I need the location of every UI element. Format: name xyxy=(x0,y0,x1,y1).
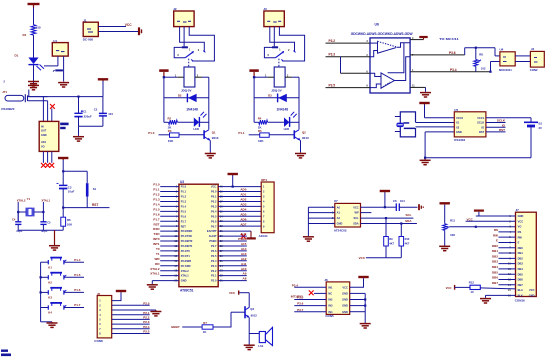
svg-text:9013: 9013 xyxy=(302,136,309,140)
svg-text:P3.2/INT0: P3.2/INT0 xyxy=(181,239,193,243)
coil pin 1 stub xyxy=(265,74,274,77)
speaker feed wire xyxy=(249,333,259,335)
svg-text:RST: RST xyxy=(181,224,187,228)
net label J6-1 xyxy=(292,284,299,288)
net label AD7 xyxy=(240,222,246,226)
svg-text:SCLK: SCLK xyxy=(477,121,484,125)
J5 pin texts xyxy=(99,300,101,336)
NC contact tick xyxy=(293,51,295,53)
svg-text:P0.5: P0.5 xyxy=(211,214,217,218)
U3 VCC pin wire xyxy=(218,186,233,188)
junction at 78.5,96.6 xyxy=(77,96,79,98)
net label PSEN xyxy=(238,237,246,241)
svg-text:VCC: VCC xyxy=(446,286,452,290)
svg-text:BLA: BLA xyxy=(518,288,523,292)
svg-text:DB1: DB1 xyxy=(492,249,498,253)
ground at op-amp pin11 xyxy=(420,92,431,97)
svg-text:U5: U5 xyxy=(454,108,458,112)
svg-text:GND: GND xyxy=(342,304,348,308)
push button K2 xyxy=(48,273,66,285)
VO wire to LCD xyxy=(449,226,515,228)
svg-text:RP1: RP1 xyxy=(261,178,267,182)
U3 P0.2 wire to RP1 xyxy=(218,200,261,202)
power bar (sideways) at J1 gnd xyxy=(139,27,142,35)
svg-text:1N4148: 1N4148 xyxy=(186,107,198,111)
svg-text:E: E xyxy=(496,239,498,243)
R6 to crystal rail xyxy=(62,226,64,230)
svg-text:Q1: Q1 xyxy=(212,131,216,135)
svg-text:JDQ-5V: JDQ-5V xyxy=(181,88,192,92)
no-connect X bottom pin c xyxy=(49,163,54,168)
svg-text:AD6: AD6 xyxy=(240,217,246,221)
ground below buttons xyxy=(47,322,58,328)
svg-text:R11: R11 xyxy=(450,219,455,223)
J3 pin3 wire to NO contact xyxy=(279,27,304,61)
cap C1 top drop xyxy=(78,97,80,113)
svg-text:A13: A13 xyxy=(241,252,247,256)
U5 SCLK wire xyxy=(486,122,506,124)
junction at 40.6,277.3 xyxy=(40,276,42,278)
svg-text:P1.7: P1.7 xyxy=(153,217,160,221)
R10 bottom xyxy=(400,246,402,258)
J7 pin11 wire xyxy=(499,268,516,270)
J7 pin10 wire xyxy=(499,263,516,265)
junction at 40.6,292.4 xyxy=(40,291,42,293)
svg-text:P1.4: P1.4 xyxy=(74,258,81,262)
svg-text:WP: WP xyxy=(355,211,359,215)
svg-text:GND: GND xyxy=(518,214,524,218)
VCC flag stem xyxy=(102,81,104,97)
power bar at J7 pin1 xyxy=(474,210,484,212)
U3 P0.3 wire to RP1 xyxy=(218,205,261,207)
junction at 475.8,47.7 xyxy=(475,47,477,49)
svg-text:DB5: DB5 xyxy=(492,270,498,274)
svg-text:CON8: CON8 xyxy=(94,339,103,343)
svg-text:RST: RST xyxy=(92,203,98,207)
net label DB4 J7 xyxy=(492,265,498,269)
svg-text:J4: J4 xyxy=(531,47,535,51)
J7 pin14 wire xyxy=(499,284,516,286)
ground below U7 bus xyxy=(303,236,314,241)
svg-text:LED: LED xyxy=(193,127,199,131)
svg-text:C6: C6 xyxy=(393,199,397,203)
net label P1.0 xyxy=(153,183,160,187)
VCC drop to pin1 xyxy=(424,105,426,118)
svg-text:ALE: ALE xyxy=(240,232,246,236)
relay coil J3 xyxy=(271,67,285,92)
svg-text:9013: 9013 xyxy=(212,136,219,140)
svg-text:C5: C5 xyxy=(47,220,51,224)
reset button top wire xyxy=(86,171,88,183)
relay collector vertical xyxy=(208,77,210,129)
relay common route xyxy=(264,47,275,57)
svg-text:P2.1: P2.1 xyxy=(211,274,217,278)
net label J6-5 xyxy=(297,308,304,312)
svg-text:4K7: 4K7 xyxy=(405,241,410,245)
svg-text:DB7: DB7 xyxy=(492,281,498,285)
svg-text:GND: GND xyxy=(337,222,343,226)
svg-text:GND: GND xyxy=(342,310,348,314)
net label WR xyxy=(155,257,161,261)
svg-text:A2: A2 xyxy=(337,216,341,220)
VCC tag wire xyxy=(239,292,249,294)
op-amp A triangle xyxy=(378,41,398,53)
U3 right pin wire 26 xyxy=(218,255,247,257)
svg-text:AD1: AD1 xyxy=(240,193,246,197)
svg-text:A0: A0 xyxy=(337,205,341,209)
contact pin number 2 xyxy=(288,48,290,52)
svg-text:P1.5: P1.5 xyxy=(181,209,187,213)
emitter wire down xyxy=(300,141,302,153)
contact pin number 3 xyxy=(177,53,179,57)
net label P1.0 xyxy=(148,131,155,135)
relay left vertical xyxy=(163,77,165,122)
transistor Q2 xyxy=(294,130,309,141)
crystal ground rail xyxy=(18,229,63,231)
svg-text:C4: C4 xyxy=(12,218,16,222)
net label AD4 xyxy=(240,207,246,211)
U2 bottom pins xyxy=(43,151,51,162)
junction at 43.4,212 xyxy=(42,211,44,213)
coil to collector vertical xyxy=(202,76,209,78)
U3 right pin wire 30 xyxy=(218,235,247,237)
NO contact tick xyxy=(281,59,283,61)
junction at 18.2,212 xyxy=(17,211,19,213)
J6 gnd wire 2 xyxy=(350,292,366,294)
J7 pin7 wire xyxy=(499,247,516,249)
U3 pin names and numbers xyxy=(174,185,223,283)
svg-text:DB2: DB2 xyxy=(518,256,524,260)
U3 left pin 19 wire xyxy=(160,275,179,277)
contrast bottom wire xyxy=(444,230,446,245)
svg-text:P2.1: P2.1 xyxy=(143,311,150,315)
contact pin number 1 xyxy=(189,48,191,52)
svg-text:4K7: 4K7 xyxy=(389,241,394,245)
indicator LED D2a xyxy=(193,112,206,131)
K3 right wire xyxy=(64,291,84,293)
relay contact common junction xyxy=(182,46,188,48)
svg-text:30pF: 30pF xyxy=(41,229,48,233)
svg-text:A103J: A103J xyxy=(259,234,268,238)
svg-text:BLK: BLK xyxy=(518,293,523,297)
ground below U1 xyxy=(58,82,69,87)
net label AD0 xyxy=(240,188,246,192)
net label DB5 J7 xyxy=(492,270,498,274)
J2 labels xyxy=(173,7,191,22)
net label AD3 xyxy=(240,202,246,206)
relay switch arm xyxy=(275,51,284,58)
svg-text:10K: 10K xyxy=(450,233,455,237)
U3 left pin 9 wire xyxy=(160,225,179,227)
svg-text:P0.4: P0.4 xyxy=(211,209,217,213)
junction at 401.3,223.5 xyxy=(400,222,402,224)
ground at J7 pin16 xyxy=(480,298,491,303)
ground below caps xyxy=(73,136,84,141)
op-amp left pin2 wire xyxy=(326,56,371,58)
svg-text:VCC: VCC xyxy=(342,285,348,289)
svg-text:J5: J5 xyxy=(97,292,101,296)
J6 pin2 wire xyxy=(314,292,326,294)
wire ground stem to VCC rail xyxy=(28,90,30,97)
svg-text:LS1: LS1 xyxy=(258,344,264,348)
net label TXD xyxy=(154,232,161,236)
svg-text:K1: K1 xyxy=(48,265,52,269)
svg-text:INT0: INT0 xyxy=(153,237,160,241)
svg-text:J2: J2 xyxy=(173,7,177,11)
U4-J4 wire1 xyxy=(515,55,530,57)
net label INT0 xyxy=(153,237,160,241)
ground below contrast xyxy=(439,246,450,251)
svg-text:A1: A1 xyxy=(337,211,341,215)
U3 left pin 13 wire xyxy=(160,245,179,247)
svg-text:1K: 1K xyxy=(203,330,207,334)
J7 pin2 wire xyxy=(466,220,516,222)
svg-text:RST: RST xyxy=(154,222,160,226)
U3 P0.7 wire to RP1 xyxy=(218,225,261,227)
wire LED to vertical xyxy=(199,121,208,123)
U4 labels xyxy=(499,48,512,72)
indicator LED D3a xyxy=(284,112,297,131)
svg-text:P2.4: P2.4 xyxy=(211,259,217,263)
push button K1 xyxy=(48,258,66,270)
ground top (sensor rail) xyxy=(28,81,39,86)
K4 left wire xyxy=(41,307,49,309)
svg-text:P1.7: P1.7 xyxy=(74,303,81,307)
svg-text:P2.4: P2.4 xyxy=(143,325,150,329)
U3 left pin 5 wire xyxy=(160,205,179,207)
net label INT1 xyxy=(153,242,160,246)
svg-text:RW: RW xyxy=(493,233,498,237)
C4 bottom xyxy=(17,224,19,230)
no-ERC X on EA xyxy=(241,234,246,239)
svg-text:Q3: Q3 xyxy=(250,307,254,311)
svg-text:VCC: VCC xyxy=(125,23,132,27)
op-amp right pin numbers xyxy=(412,37,415,88)
svg-text:AD4: AD4 xyxy=(240,207,246,211)
U3 left pin 12 wire xyxy=(160,240,179,242)
U3 EA pin wire xyxy=(218,230,251,232)
J7 pin13 wire xyxy=(499,278,516,280)
relay terminal block J3 xyxy=(264,11,284,27)
wire U1 pin1 to LED link xyxy=(44,65,58,67)
svg-text:R4: R4 xyxy=(258,116,262,120)
op-amp ref wire xyxy=(410,71,490,73)
svg-text:A11: A11 xyxy=(241,262,247,266)
J7 pin8 wire xyxy=(499,252,516,254)
svg-text:P1.0: P1.0 xyxy=(181,185,187,189)
svg-text:9012: 9012 xyxy=(251,313,258,317)
J6 pin5 wire xyxy=(294,311,326,313)
reset button bottom wire xyxy=(86,197,88,208)
junction at 232.7,186.6 xyxy=(232,186,234,188)
svg-text:IO: IO xyxy=(481,125,484,129)
svg-text:VCC: VCC xyxy=(353,205,359,209)
J3 labels xyxy=(263,7,281,22)
SDA pullup tap xyxy=(400,224,402,237)
J5 pin4 wire xyxy=(112,314,150,316)
net label DB0 J7 xyxy=(492,244,498,248)
svg-text:J6: J6 xyxy=(324,278,328,282)
svg-text:P3.5/T1: P3.5/T1 xyxy=(181,254,191,258)
net label E J7 xyxy=(496,239,498,243)
flyback diode D2 xyxy=(178,94,198,112)
op-amp pin11 wire xyxy=(410,86,425,88)
svg-text:P1.1: P1.1 xyxy=(153,188,160,192)
U3 right pin wire 29 xyxy=(218,240,247,242)
K1 right wire xyxy=(64,261,84,263)
svg-text:R1: R1 xyxy=(23,33,27,37)
net label RXD xyxy=(153,227,160,231)
net label VCC at J7 xyxy=(467,218,474,222)
svg-text:104: 104 xyxy=(108,112,113,116)
RP1 labels xyxy=(259,178,268,238)
net label P2.4 J5 xyxy=(143,325,150,329)
J7 pin texts xyxy=(508,214,535,297)
svg-text:1N4148: 1N4148 xyxy=(277,107,289,111)
svg-text:P1.5: P1.5 xyxy=(153,207,160,211)
svg-text:VCC2: VCC2 xyxy=(456,116,463,120)
VCC1 wire to battery xyxy=(486,117,531,119)
svg-text:AD2: AD2 xyxy=(240,198,246,202)
net label A10 xyxy=(241,267,247,271)
net label SCLK xyxy=(497,119,506,123)
svg-text:VO: VO xyxy=(41,145,45,148)
svg-text:XTAL2: XTAL2 xyxy=(181,269,190,273)
J7 pin16 drop xyxy=(485,295,487,297)
net label T1 xyxy=(156,252,160,256)
op-amp B output route xyxy=(394,57,410,81)
svg-text:DS1302: DS1302 xyxy=(454,138,465,142)
Q3 base wire xyxy=(231,311,245,313)
K2 right wire xyxy=(64,276,84,278)
trimmer R11 xyxy=(443,219,456,237)
op-amp left pins vertical xyxy=(340,57,342,74)
wire VCC to R1 xyxy=(33,8,35,25)
svg-text:SDA: SDA xyxy=(353,222,359,226)
J7 pin5 wire xyxy=(499,236,516,238)
svg-text:DB0: DB0 xyxy=(518,246,524,250)
svg-text:R6: R6 xyxy=(67,218,71,222)
net label P1.4 xyxy=(153,202,160,206)
junction at 365.2,299.5 xyxy=(364,298,366,300)
no-ERC X at J6 pin2 xyxy=(309,290,314,295)
svg-text:X2: X2 xyxy=(456,125,460,129)
svg-text:MOC3041: MOC3041 xyxy=(499,68,512,72)
U3 left pin 18 wire xyxy=(160,270,179,272)
pin11 drop xyxy=(425,87,427,91)
svg-text:D3: D3 xyxy=(268,94,272,98)
svg-text:VCC: VCC xyxy=(518,219,524,223)
net label P1.7 xyxy=(153,217,160,221)
coil pin 2 stub xyxy=(285,74,292,77)
IR receiver U1 xyxy=(52,43,68,57)
battery bottom lead xyxy=(530,126,532,158)
svg-text:P3.1/TXD: P3.1/TXD xyxy=(181,234,192,238)
U7 VCC riser xyxy=(384,192,386,207)
regulator U2 xyxy=(39,121,59,151)
J7 pin1 riser xyxy=(478,212,480,216)
svg-text:P3.7/RD: P3.7/RD xyxy=(181,264,191,268)
svg-text:R2: R2 xyxy=(168,116,172,120)
wire D1 to ground xyxy=(33,65,35,84)
power flag VCC at U7 xyxy=(380,191,390,192)
net label ALE xyxy=(240,232,246,236)
relay actuation dashed link xyxy=(278,59,280,67)
sensor data wire xyxy=(28,100,48,102)
power bar at op-amp pin4 xyxy=(419,37,427,40)
svg-text:U7: U7 xyxy=(334,199,338,203)
net label A9 xyxy=(243,272,247,276)
svg-text:IN2: IN2 xyxy=(328,298,333,302)
U2 inner text xyxy=(41,123,69,149)
svg-text:P1.4: P1.4 xyxy=(153,202,160,206)
power flag VCC at J6 xyxy=(358,277,368,278)
net label RS J7 xyxy=(494,228,498,232)
wire net label to base resistor xyxy=(159,134,170,136)
wire base resistor to transistor xyxy=(269,134,294,136)
svg-text:E: E xyxy=(518,241,520,245)
ground at J5 pin3 xyxy=(150,310,161,316)
connector J4 xyxy=(530,51,544,67)
U3 left pin 10 wire xyxy=(160,230,179,232)
DS1302 pin1 wire xyxy=(425,117,455,119)
XTAL1 drop xyxy=(42,202,44,222)
J2 pin3 wire to NO contact xyxy=(189,27,214,61)
svg-text:R8: R8 xyxy=(479,52,483,56)
J6 labels xyxy=(324,278,334,318)
U3 right pin wire 23 xyxy=(218,270,247,272)
ground below Q2 xyxy=(295,152,306,158)
U3 left pin 6 wire xyxy=(160,210,179,212)
ground below U3 pin20 xyxy=(147,284,158,289)
U3 left pin 11 wire xyxy=(160,235,179,237)
base route from R7 xyxy=(213,312,231,327)
svg-text:ALE/P: ALE/P xyxy=(209,234,217,238)
J5 pin6 wire xyxy=(112,323,150,325)
power bar at EA xyxy=(247,231,256,238)
VCC rail top-left xyxy=(29,96,103,98)
U7 left bus xyxy=(307,207,309,236)
opto/driver U4 xyxy=(500,52,515,66)
svg-text:P1.1: P1.1 xyxy=(238,131,245,135)
pullup resistor R10 xyxy=(399,237,410,247)
svg-text:DB5: DB5 xyxy=(518,272,524,276)
GND drop xyxy=(424,132,426,158)
op-amp long part text xyxy=(351,32,414,36)
svg-text:P3.3: P3.3 xyxy=(329,53,336,57)
net label SDA xyxy=(405,219,412,223)
base resistor R5 xyxy=(258,129,269,143)
U7 left pin3 wire xyxy=(308,217,334,219)
ground below Q1 xyxy=(205,152,216,158)
NO contact tick xyxy=(191,59,193,61)
rail drop to U4 pin1 xyxy=(494,48,496,56)
electrolytic cap C1 xyxy=(74,110,92,119)
net label P1.7 xyxy=(74,303,81,307)
net label P1.2 xyxy=(153,193,160,197)
no-connect X bottom pin a xyxy=(41,163,46,168)
connector J5 xyxy=(97,296,112,338)
svg-text:P2.5: P2.5 xyxy=(211,254,217,258)
XTAL2 node down xyxy=(17,212,19,222)
svg-text:P0.6: P0.6 xyxy=(211,219,217,223)
svg-text:P3.4: P3.4 xyxy=(450,68,457,72)
ref riser xyxy=(490,62,492,72)
reset top rail xyxy=(63,170,87,172)
op-amp internal feedback xyxy=(397,43,410,48)
op-amp left pin1 wire xyxy=(326,42,371,44)
net label P1.5 xyxy=(153,207,160,211)
